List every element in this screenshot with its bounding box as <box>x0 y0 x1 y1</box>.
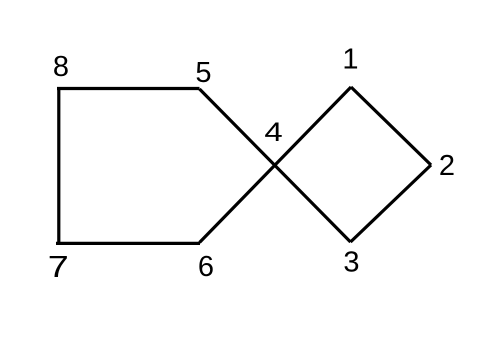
edge 2-3 (lower right side of diamond) <box>351 165 432 242</box>
edge 8-5 (top side of pentagon) <box>57 87 200 90</box>
edge 5-4-3 (diagonal from vertex 5 through node 4 to vertex 3) <box>200 89 351 242</box>
svg-text:2: 2 <box>439 150 455 182</box>
svg-text:7: 7 <box>48 250 69 284</box>
edge 6-4-1 (diagonal from vertex 6 through node 4 to vertex 1) <box>200 87 352 243</box>
svg-text:8: 8 <box>53 51 69 83</box>
svg-text:3: 3 <box>343 247 359 279</box>
edge 8-7 (left side of pentagon) <box>57 87 60 245</box>
edge 1-2 (upper right side of diamond) <box>351 87 431 165</box>
svg-text:6: 6 <box>198 251 214 283</box>
svg-text:4: 4 <box>264 118 282 148</box>
edge 7-6 (bottom side of pentagon) <box>56 242 200 245</box>
svg-text:1: 1 <box>342 44 358 76</box>
svg-text:5: 5 <box>195 57 211 89</box>
